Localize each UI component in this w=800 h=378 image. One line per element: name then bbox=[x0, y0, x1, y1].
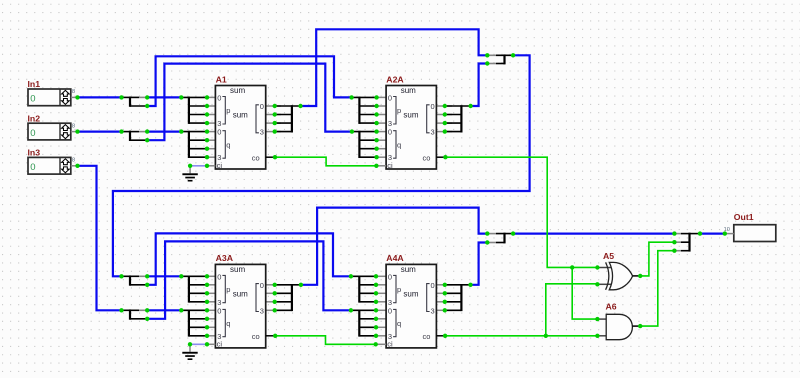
wire A2A sum output to merger M1 input b bbox=[471, 64, 488, 107]
svg-text:A4A: A4A bbox=[386, 253, 404, 263]
splitter S1 (In1 8-bit to 2x4-bit) bbox=[122, 97, 148, 107]
svg-text:0: 0 bbox=[388, 306, 392, 315]
svg-text:0: 0 bbox=[260, 102, 264, 111]
node merger M3 output bbox=[698, 231, 702, 235]
svg-text:sum: sum bbox=[403, 290, 418, 299]
svg-text:In2: In2 bbox=[28, 113, 41, 123]
svg-text:In1: In1 bbox=[28, 79, 41, 89]
node In3 splitter outputs bbox=[145, 308, 149, 321]
svg-text:3: 3 bbox=[431, 306, 435, 315]
A1 p input fanout bbox=[181, 95, 215, 125]
svg-text:ci: ci bbox=[387, 161, 393, 170]
node merger M2 output bbox=[511, 231, 515, 235]
svg-text:co: co bbox=[252, 332, 260, 341]
wire A1 ci (ground, hi-Z) bbox=[190, 165, 207, 167]
svg-text:sum: sum bbox=[233, 111, 248, 120]
A2A sum output fanout bbox=[436, 104, 472, 134]
svg-text:sum: sum bbox=[401, 86, 416, 95]
wire splitter S4 low nibble to A3A p fanout bbox=[147, 275, 181, 277]
input port In1 bbox=[28, 79, 80, 106]
svg-text:0: 0 bbox=[217, 306, 221, 315]
node junction A2A co branch bbox=[570, 265, 574, 269]
A4A ci pin stub bbox=[374, 342, 387, 346]
ground for A3A ci bbox=[182, 344, 197, 360]
splitter S4 (row1 sum 8-bit to 2x4-bit) bbox=[122, 275, 148, 285]
A1 q input fanout bbox=[181, 129, 215, 159]
svg-text:Out1: Out1 bbox=[734, 212, 754, 222]
svg-text:sum: sum bbox=[230, 265, 245, 274]
wire splitter S1 low nibble to A1 p fanout bbox=[147, 96, 181, 98]
adder A2A bbox=[386, 74, 436, 170]
svg-text:sum: sum bbox=[233, 290, 248, 299]
wire A2A co to XOR A5 input 1 bbox=[445, 157, 597, 267]
wire In3 bus to splitter S3 bbox=[79, 166, 122, 310]
wire AND A6 output to merger M3 bbox=[640, 251, 674, 326]
node A2A q fanout input bbox=[350, 129, 354, 133]
wire branch junction to XOR A5 input 2 bbox=[546, 284, 598, 336]
A4A co pin stub bbox=[436, 334, 447, 338]
svg-text:p: p bbox=[397, 285, 401, 294]
adder A1 bbox=[215, 74, 265, 170]
svg-text:q: q bbox=[226, 140, 230, 149]
xor gate A5 bbox=[595, 251, 642, 290]
svg-text:q: q bbox=[397, 319, 401, 328]
wire splitter S1 high nibble to A2A p fanout bbox=[147, 56, 351, 106]
A2A p input fanout bbox=[352, 95, 387, 125]
svg-text:ci: ci bbox=[217, 161, 223, 170]
svg-text:In3: In3 bbox=[28, 148, 41, 158]
node In1 splitter outputs bbox=[145, 95, 149, 108]
wire A3A co to A4A ci bbox=[275, 336, 376, 345]
svg-text:3: 3 bbox=[260, 128, 264, 137]
wire In2 bus to splitter S2 bbox=[79, 131, 122, 133]
output port Out1 bbox=[723, 212, 776, 241]
svg-text:A2A: A2A bbox=[386, 74, 404, 84]
svg-text:ci: ci bbox=[387, 340, 393, 349]
node In2 splitter outputs bbox=[145, 129, 149, 142]
A3A co pin stub bbox=[266, 334, 278, 338]
node ground A1 bbox=[188, 164, 192, 168]
adder A3A bbox=[215, 253, 265, 349]
node A3A p fanout input bbox=[179, 274, 183, 278]
A4A q input fanout bbox=[351, 308, 386, 338]
A3A p input fanout bbox=[181, 274, 215, 304]
wire merger M1 output to splitter S4 input bbox=[113, 55, 530, 276]
A1 sum output fanout bbox=[266, 104, 303, 134]
svg-text:p: p bbox=[226, 106, 230, 115]
A2A q input fanout bbox=[352, 129, 386, 159]
input port In2 bbox=[28, 113, 80, 139]
svg-text:0: 0 bbox=[30, 94, 35, 105]
svg-text:p: p bbox=[397, 106, 401, 115]
svg-text:3: 3 bbox=[431, 128, 435, 137]
A3A sum output fanout bbox=[266, 283, 303, 313]
node merger M3 inputs bbox=[672, 231, 676, 252]
node A1 q fanout input bbox=[179, 129, 183, 133]
wire merger M2 output to output merger M3 bbox=[513, 233, 674, 235]
svg-text:co: co bbox=[423, 332, 431, 341]
and gate A6 bbox=[595, 302, 642, 340]
A2A co pin stub bbox=[436, 155, 447, 159]
wire A4A sum output to merger M2 input b bbox=[471, 243, 488, 285]
node junction A4A co branch bbox=[544, 334, 548, 338]
svg-text:A1: A1 bbox=[216, 74, 227, 84]
node In1 splitter input bbox=[119, 95, 123, 99]
node A4A p fanout input bbox=[349, 274, 353, 278]
svg-text:0: 0 bbox=[30, 128, 35, 139]
wire In1 bus to splitter S1 bbox=[78, 96, 122, 98]
svg-text:A3A: A3A bbox=[216, 253, 234, 263]
svg-text:8: 8 bbox=[72, 89, 75, 95]
wire merger M3 output to Out1 bbox=[700, 233, 725, 235]
wire XOR A5 output to merger M3 bbox=[640, 242, 674, 276]
svg-text:0: 0 bbox=[217, 272, 221, 281]
svg-text:0: 0 bbox=[388, 272, 392, 281]
node In3 splitter input bbox=[119, 308, 123, 312]
svg-text:A5: A5 bbox=[603, 251, 614, 261]
svg-text:A6: A6 bbox=[606, 302, 617, 312]
svg-text:0: 0 bbox=[431, 281, 435, 290]
svg-text:3: 3 bbox=[260, 306, 264, 315]
wire splitter S2 high nibble to A2A q fanout bbox=[147, 64, 352, 141]
wire splitter S4 high nibble to A4A p fanout bbox=[147, 233, 351, 284]
A4A sum output fanout bbox=[436, 283, 472, 313]
node A2A p fanout input bbox=[349, 95, 353, 99]
svg-text:q: q bbox=[397, 140, 401, 149]
wire branch junction to AND A6 input 1 bbox=[572, 267, 597, 319]
svg-text:co: co bbox=[252, 153, 260, 162]
wire A3A sum output to merger M2 input a bbox=[301, 208, 487, 285]
A1 co pin stub bbox=[266, 155, 277, 159]
A4A p input fanout bbox=[351, 274, 386, 304]
svg-text:sum: sum bbox=[401, 265, 416, 274]
wire splitter S3 high nibble to A4A q fanout bbox=[147, 241, 351, 318]
merger M2 (A3A+A4A sums to 8-bit) bbox=[487, 233, 513, 244]
svg-text:ci: ci bbox=[217, 340, 223, 349]
svg-text:0: 0 bbox=[388, 128, 392, 137]
svg-text:0: 0 bbox=[217, 93, 221, 102]
ground for A1 ci bbox=[182, 166, 197, 182]
merger M3 (bus + A5 + A6 to 10-bit) bbox=[674, 233, 700, 252]
input port In3 bbox=[28, 148, 80, 175]
svg-text:0: 0 bbox=[388, 93, 392, 102]
A3A ci pin stub bbox=[205, 342, 216, 346]
node S4 splitter input bbox=[119, 274, 123, 278]
svg-text:0: 0 bbox=[30, 162, 35, 173]
node A3A q fanout input bbox=[179, 308, 183, 312]
svg-text:p: p bbox=[226, 285, 230, 294]
svg-text:0: 0 bbox=[217, 128, 221, 137]
node S4 splitter outputs bbox=[145, 274, 149, 287]
wire A4A co to AND A6 input 2 bbox=[445, 335, 597, 337]
wire A3A ci (ground, hi-Z) bbox=[190, 343, 207, 345]
wire A1 co to A2A ci bbox=[275, 157, 376, 166]
A2A ci pin stub bbox=[374, 164, 386, 168]
svg-text:sum: sum bbox=[403, 111, 418, 120]
node merger M1 output bbox=[511, 53, 515, 57]
wire splitter S3 low nibble to A3A q fanout bbox=[147, 309, 181, 311]
wire splitter S2 low nibble to A1 q fanout bbox=[147, 131, 181, 133]
svg-text:0: 0 bbox=[260, 281, 264, 290]
splitter S2 (In2 8-bit to 2x4-bit) bbox=[122, 131, 148, 141]
merger M1 (A1+A2A sums to 8-bit) bbox=[487, 54, 513, 64]
svg-text:sum: sum bbox=[230, 86, 245, 95]
node A4A q fanout input bbox=[349, 308, 353, 312]
svg-text:q: q bbox=[226, 319, 230, 328]
svg-text:0: 0 bbox=[431, 102, 435, 111]
svg-text:8: 8 bbox=[72, 123, 75, 129]
svg-text:8: 8 bbox=[72, 158, 75, 164]
node merger M2 inputs bbox=[485, 231, 489, 244]
splitter S3 (In3 8-bit to 2x4-bit) bbox=[122, 309, 148, 319]
node ground A3A bbox=[188, 342, 192, 346]
node In2 splitter input bbox=[119, 129, 123, 133]
node merger M1 inputs bbox=[485, 53, 489, 66]
A1 ci pin stub bbox=[205, 164, 216, 168]
A3A q input fanout bbox=[181, 308, 215, 338]
svg-text:co: co bbox=[423, 153, 431, 162]
wire A1 sum output to merger M1 input a bbox=[301, 29, 488, 106]
node A1 p fanout input bbox=[179, 95, 183, 99]
adder A4A bbox=[386, 253, 436, 349]
